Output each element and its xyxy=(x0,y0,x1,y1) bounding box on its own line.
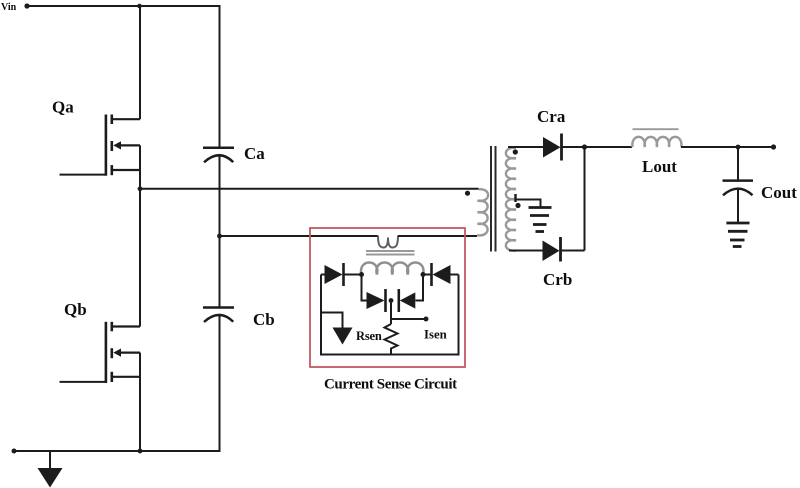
ground Cout xyxy=(726,223,749,247)
wire secondary bottom to Crb xyxy=(509,250,543,252)
wire Cout lower xyxy=(737,189,739,223)
capacitor Ca xyxy=(203,148,234,163)
svg-text:Crb: Crb xyxy=(543,270,572,289)
svg-text:Rsen: Rsen xyxy=(356,329,382,343)
transformer T1 center tap xyxy=(516,194,541,207)
junction bottom rail / Qb source xyxy=(138,449,143,454)
wire middle node to Rsen xyxy=(390,301,392,325)
wire Qa gate xyxy=(60,174,106,176)
transformer T1 primary phase dot xyxy=(465,191,470,196)
svg-text:Isen: Isen xyxy=(424,328,447,342)
capacitor Cb xyxy=(203,308,234,323)
wire CS right rail xyxy=(458,275,460,356)
current transformer CT secondary winding xyxy=(361,263,423,275)
wire CS bottom rail xyxy=(320,354,460,356)
transformer T1 core xyxy=(491,146,496,252)
junction output / Cout xyxy=(736,145,741,150)
node Isen dot xyxy=(424,317,429,322)
transistor Qb xyxy=(106,322,140,383)
junction Qa source / mid wire xyxy=(138,186,143,191)
wire secondary top to Cra xyxy=(508,146,543,148)
wire bridge midpoint to transformer primary top xyxy=(140,188,479,190)
wire Lout to output xyxy=(681,146,774,148)
wire Qa drain vertical xyxy=(139,6,141,119)
svg-text:Current Sense Circuit: Current Sense Circuit xyxy=(324,377,457,393)
wire Qa source vertical xyxy=(139,145,141,188)
current transformer CT core xyxy=(366,251,415,255)
svg-text:Cb: Cb xyxy=(253,310,275,329)
transformer T1 secondary winding xyxy=(506,148,516,251)
svg-text:Qa: Qa xyxy=(52,98,74,117)
inductor Lout top bar xyxy=(633,128,679,130)
diode CS middle right xyxy=(399,289,416,312)
wire CS right riser xyxy=(416,275,424,301)
node bottom-left terminal dot xyxy=(12,449,17,454)
junction top rail / Qa drain xyxy=(137,4,142,9)
inductor Lout winding xyxy=(632,137,681,147)
junction rectifier output xyxy=(582,144,587,149)
wire Ca branch upper xyxy=(219,6,221,148)
svg-text:Lout: Lout xyxy=(642,157,677,176)
wire Qb gate xyxy=(60,381,106,383)
ground arrow CS xyxy=(321,313,353,345)
wire cap midpoint to CT primary xyxy=(220,235,379,237)
diode CS left xyxy=(321,263,362,286)
wire bottom rail xyxy=(14,450,221,452)
capacitor Cout xyxy=(723,181,754,196)
svg-text:Vin: Vin xyxy=(1,2,17,13)
diode Crb xyxy=(543,237,561,262)
node output terminal dot xyxy=(771,144,776,149)
transistor Qa xyxy=(106,115,140,176)
wire Qb source vertical xyxy=(139,353,141,451)
current sense box xyxy=(310,228,465,367)
transformer T1 secondary top phase dot xyxy=(513,149,518,154)
wire Isen branch xyxy=(391,318,426,320)
junction CT secondary right xyxy=(421,272,426,277)
svg-text:Cout: Cout xyxy=(761,183,797,202)
wire Cout upper xyxy=(737,147,739,181)
wire CS left rail xyxy=(320,275,322,356)
wire Qb drain vertical xyxy=(139,189,141,327)
svg-text:Cra: Cra xyxy=(537,107,566,126)
wire CT primary to transformer primary bottom xyxy=(398,235,477,237)
node Vin terminal dot xyxy=(24,3,29,8)
junction CT secondary left xyxy=(359,272,364,277)
wire Crb to right vertical xyxy=(562,250,585,252)
ground arrow bottom left xyxy=(38,451,63,488)
wire rectifier right vertical xyxy=(584,147,586,251)
diode Cra xyxy=(543,134,562,161)
ground center tap xyxy=(529,208,552,232)
diode CS middle left xyxy=(367,289,386,312)
wire Cb branch lower xyxy=(219,315,221,451)
junction CS middle node xyxy=(389,298,394,303)
junction cap midpoint xyxy=(217,234,222,239)
current transformer CT primary loops xyxy=(378,236,398,248)
resistor Rsen xyxy=(385,324,398,356)
wire Ca to Cb xyxy=(219,155,221,307)
diode CS right xyxy=(423,263,459,286)
wire CS left riser xyxy=(362,275,367,301)
transformer T1 secondary lower phase dot xyxy=(515,203,520,208)
transformer T1 primary winding xyxy=(477,189,488,235)
wire Cra to Lout xyxy=(563,146,633,148)
svg-text:Qb: Qb xyxy=(64,300,87,319)
wire top rail Vin xyxy=(27,5,221,7)
svg-text:Ca: Ca xyxy=(244,144,265,163)
